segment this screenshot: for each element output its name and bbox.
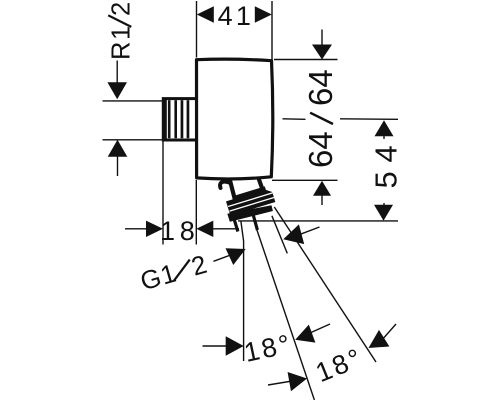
svg-text:2: 2 [108,2,136,16]
svg-text:1: 1 [160,216,175,246]
svg-text:5 4: 5 4 [369,145,404,188]
svg-text:4: 4 [218,1,233,31]
svg-text:1: 1 [108,26,136,40]
svg-text:R: R [108,42,136,60]
svg-text:1: 1 [236,1,251,31]
svg-text:8: 8 [180,216,195,246]
svg-text:64: 64 [302,131,339,168]
svg-text:64: 64 [302,69,339,106]
